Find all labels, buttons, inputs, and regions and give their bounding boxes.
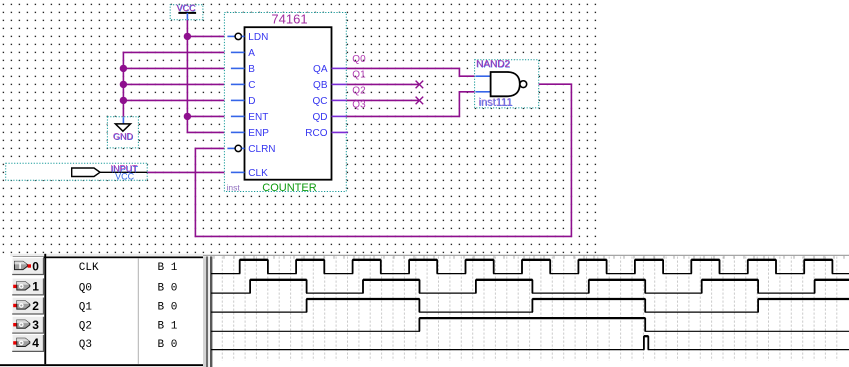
svg-text:B 1: B 1: [158, 321, 178, 333]
NAND output bubble: [520, 81, 527, 88]
svg-text:B: B: [248, 64, 255, 75]
svg-text:ENP: ENP: [248, 128, 269, 139]
svg-text:Q3: Q3: [79, 339, 92, 351]
waveform row button 4: [12, 334, 44, 351]
svg-text:2: 2: [32, 299, 39, 313]
wire ENT: [187, 115, 231, 117]
pin stub C: [231, 83, 245, 85]
svg-text:inst: inst: [227, 182, 241, 192]
svg-text:A: A: [248, 48, 255, 59]
name/value divider: [138, 258, 139, 364]
junction C: [120, 81, 127, 88]
svg-text:1: 1: [32, 280, 39, 294]
wire QB dangling: [345, 83, 419, 85]
74161 counter symbol U1: [224, 12, 347, 195]
svg-text:B 0: B 0: [158, 302, 178, 314]
wire NAND output feedback to CLRN: [195, 84, 571, 236]
ruler tick marks: [214, 256, 844, 259]
svg-text:Q0: Q0: [79, 282, 92, 294]
svg-text:B 1: B 1: [158, 262, 178, 274]
left panel top border: [13, 257, 206, 259]
waveform Q2 trace: [211, 318, 849, 331]
svg-text:VCC: VCC: [176, 3, 196, 13]
panel/wave double bar: [203, 256, 206, 367]
svg-text:NAND2: NAND2: [476, 59, 510, 70]
pin stub CLRN with bubble: [227, 147, 235, 149]
svg-text:Q3: Q3: [352, 100, 366, 111]
svg-text:LDN: LDN: [248, 32, 268, 43]
INPUT pin symbol (CLK source): [6, 163, 148, 181]
svg-text:QA: QA: [313, 64, 328, 75]
svg-text:C: C: [248, 80, 255, 91]
X marker QC: [416, 97, 424, 105]
waveform row button 3: [12, 316, 44, 333]
pin stub QD: [332, 115, 347, 117]
GND ground symbol: [107, 117, 138, 148]
pin stub QC: [332, 99, 347, 101]
svg-text:CLK: CLK: [248, 168, 268, 179]
waveform CLK trace: [211, 260, 849, 274]
waveform Q1 trace: [211, 299, 849, 312]
svg-text:QB: QB: [313, 80, 328, 91]
wire B: [123, 67, 230, 69]
pin stub QB: [332, 83, 347, 85]
pin stub D: [231, 99, 245, 101]
NAND2 gate inst111: [475, 59, 539, 109]
svg-text:B 0: B 0: [158, 339, 178, 351]
counter body: [245, 27, 332, 180]
panel bottom border: [0, 364, 206, 366]
svg-text:Q0: Q0: [352, 54, 366, 65]
pin stub ENP: [231, 131, 245, 133]
junction B: [120, 65, 127, 72]
svg-text:inst111: inst111: [478, 96, 512, 108]
svg-text:0: 0: [32, 259, 39, 273]
svg-text:Q2: Q2: [352, 86, 366, 97]
svg-text:Q2: Q2: [79, 321, 92, 333]
pin stub B: [231, 67, 245, 69]
svg-text:GND: GND: [113, 132, 134, 142]
svg-text:QC: QC: [313, 96, 328, 107]
waveform row button 2: [12, 297, 44, 314]
junction VCC-ENT: [184, 113, 191, 120]
button column divider: [44, 254, 46, 364]
wire QA to NAND input A: [345, 68, 475, 76]
waveform Q0 trace: [211, 280, 849, 293]
schematic dot grid: [0, 0, 597, 254]
junction D: [120, 97, 127, 104]
X marker QB: [416, 81, 424, 89]
VCC power symbol: [170, 3, 203, 20]
junction VCC-LDN: [184, 33, 191, 40]
svg-text:QD: QD: [313, 112, 328, 123]
svg-text:B 0: B 0: [158, 282, 178, 294]
waveform Q3 trace: [211, 336, 849, 349]
wire D: [123, 99, 230, 101]
svg-text:CLRN: CLRN: [248, 144, 275, 155]
pin stub LDN with bubble: [227, 35, 235, 37]
waveform vertical gridlines: [222, 257, 837, 361]
pin stub RCO: [332, 131, 348, 133]
waveform row button 1: [12, 278, 44, 295]
pin stub CLK: [231, 171, 245, 173]
svg-text:ENT: ENT: [248, 112, 268, 123]
NAND input stub B: [475, 91, 490, 93]
svg-text:Q1: Q1: [352, 70, 366, 81]
wire C: [123, 83, 230, 85]
pin stub QA: [332, 67, 347, 69]
wire LDN net (VCC to LDN pin): [187, 35, 231, 37]
window separator line: [203, 254, 849, 256]
svg-text:RCO: RCO: [305, 128, 327, 139]
svg-text:4: 4: [32, 336, 39, 350]
waveform row button 0: [12, 258, 44, 275]
NAND input stub A: [475, 75, 490, 77]
svg-text:COUNTER: COUNTER: [262, 182, 316, 194]
wire A row and vertical to GND: [123, 52, 230, 117]
svg-text:D: D: [248, 96, 255, 107]
pin stub ENT: [231, 115, 245, 117]
wire QC dangling: [345, 99, 419, 101]
svg-text:74161: 74161: [271, 12, 307, 27]
svg-text:CLK: CLK: [79, 262, 99, 274]
svg-text:Q1: Q1: [79, 302, 93, 314]
NAND gate body: [491, 72, 520, 96]
panel top light strip: [10, 254, 203, 257]
pin stub A: [231, 51, 245, 53]
selection box counter: [224, 13, 346, 192]
svg-text:VCC: VCC: [115, 171, 135, 181]
wire CLK from input pin: [147, 171, 231, 173]
wire QD to NAND input B: [345, 92, 475, 117]
svg-text:3: 3: [32, 318, 39, 332]
wire VCC vertical to ENP: [187, 14, 231, 132]
